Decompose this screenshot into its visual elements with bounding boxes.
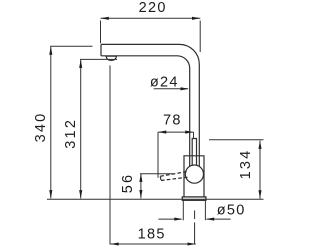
dim 78 line [158,131,194,133]
cartridge stem [192,139,196,167]
aerator [106,56,117,60]
dia50 left leader [158,218,181,220]
dim 56 line [140,174,142,199]
dia24 leader line [154,88,188,90]
dim 312 top extension [80,58,117,60]
supply centerline (dashed) [194,211,196,245]
dim 134 line [259,141,261,199]
dim 220 right extension [199,21,201,53]
arrow 78 right [185,131,193,134]
spout outer outline [101,44,199,155]
arrow 56 top [139,174,142,182]
svg-text:78: 78 [163,112,182,128]
spout inner outline [101,56,190,156]
dia50 right leader [207,218,231,220]
dim 340 line [50,46,52,198]
svg-text:185: 185 [138,226,166,242]
dim 56 top extension [140,173,173,175]
dim 340 top extension [50,45,92,47]
dim 78 end tick [193,132,195,138]
body [184,156,204,197]
dim 78 left extension [157,132,159,178]
arrow dia50 left [174,218,182,221]
svg-text:312: 312 [63,118,79,149]
dim 185 left extension [109,65,111,244]
arrow 134 top [258,141,261,149]
dim 312 line [80,60,82,199]
dim 220 left extension [100,21,102,44]
ball joint circle [185,165,203,183]
dim 134 top extension [209,139,264,141]
svg-text:134: 134 [238,149,254,180]
arrow dia24 [181,87,189,90]
counter line [47,198,264,200]
svg-text:56: 56 [120,173,136,194]
svg-text:ø50: ø50 [217,202,246,218]
svg-text:ø24: ø24 [150,74,179,90]
dim 220 line [101,17,201,19]
arrow 340 top [49,46,52,54]
dia50 right extension [204,200,206,220]
arrow 312 top [79,60,82,68]
base flange [182,197,206,200]
riser pipe lines into body [190,156,200,167]
arrow 220 right [192,17,200,20]
arrow 185 right [188,242,196,245]
arrow 312 bottom [79,190,82,198]
dia50 left extension [182,200,184,220]
arrow 56 bottom [139,190,142,198]
svg-text:340: 340 [33,112,49,143]
dim 185 line [110,243,195,245]
arrow 134 bottom [258,190,261,198]
arrow 78 left [158,131,166,134]
arrow 185 left [110,242,118,245]
lever handle (dashed) [160,172,187,181]
arrow 340 bottom [49,190,52,198]
svg-text:220: 220 [139,0,167,16]
arrow dia50 right [206,218,214,221]
arrow 220 left [101,17,109,20]
spout tip cap [100,44,102,55]
